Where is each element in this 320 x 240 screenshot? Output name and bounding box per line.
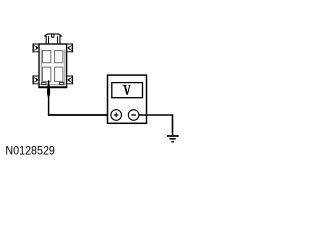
voltmeter V label — [123, 86, 130, 95]
voltmeter display — [112, 83, 143, 98]
connector inner left wall — [40, 50, 42, 85]
connector upper-left wing — [33, 43, 38, 52]
probe arrow into cavity 3 — [47, 80, 50, 96]
connector bottom edge (thick) — [38, 86, 67, 88]
ground G1 — [167, 136, 179, 142]
svg-text:N0128529: N0128529 — [5, 143, 55, 157]
cavity 4 (lower-right) — [55, 67, 63, 82]
connector upper-right wing — [67, 43, 72, 52]
cavity 1 (upper-left) — [43, 51, 51, 63]
voltmeter + terminal — [111, 110, 122, 121]
connector C1 body — [39, 44, 67, 87]
connector lower-left wing — [33, 75, 38, 84]
connector lower-right wing — [67, 75, 72, 84]
cavity 3 (lower-left) — [43, 67, 51, 82]
connector top tab — [45, 34, 61, 44]
wire from probe down — [48, 96, 50, 116]
connector inner bottom line — [40, 84, 66, 86]
wire to voltmeter + — [48, 114, 111, 116]
connector inner right wall — [64, 50, 66, 85]
cavity 2 (upper-right) — [55, 51, 63, 63]
wire from - to ground drop — [139, 115, 173, 135]
terminal slot right — [60, 83, 64, 85]
voltmeter V1 box — [108, 75, 147, 123]
voltmeter - terminal — [128, 110, 139, 121]
terminal slot left — [42, 83, 46, 85]
